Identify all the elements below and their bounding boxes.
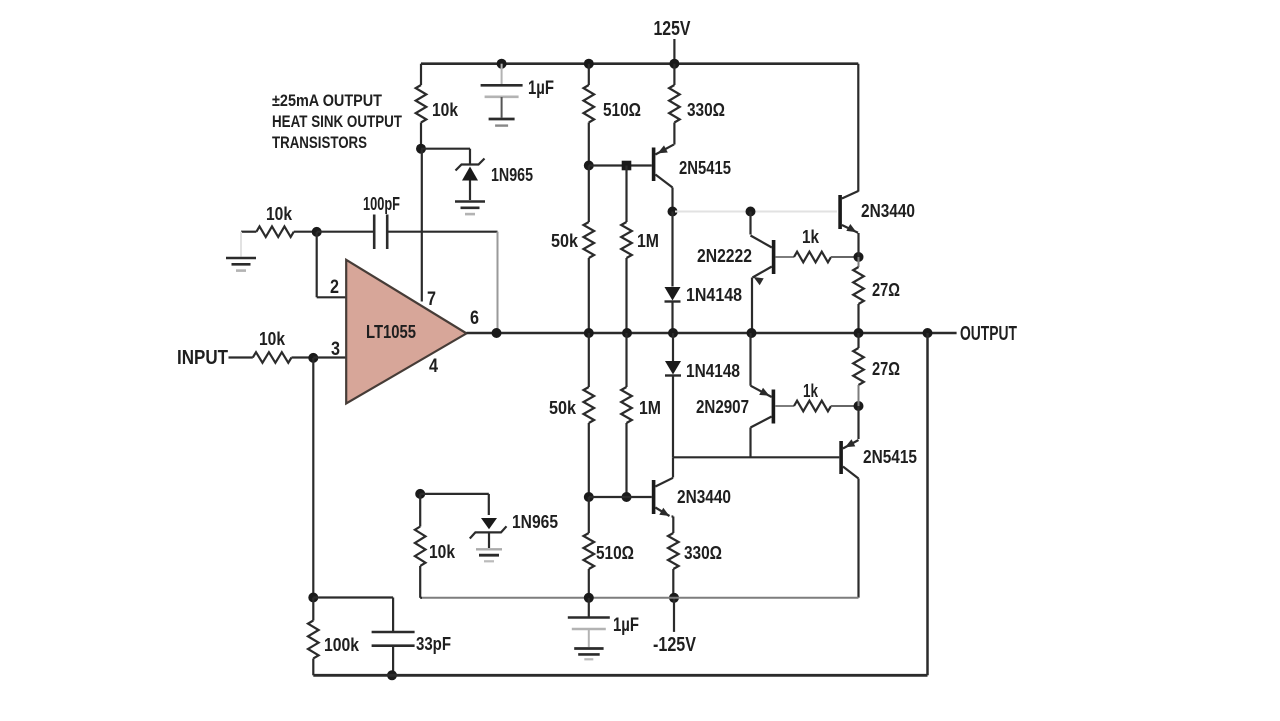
svg-text:1M: 1M xyxy=(639,398,661,418)
resistor R14 330ohm (lower) xyxy=(668,533,679,569)
label INPUT xyxy=(177,347,228,369)
node 10k-low / zener junction xyxy=(415,489,425,499)
node 50k/510 lower junction xyxy=(584,492,594,502)
wire pin2 horizontal xyxy=(317,296,346,298)
label R7 1k xyxy=(802,227,820,247)
wire D3 lower lead xyxy=(671,303,673,334)
label R16 100k xyxy=(324,635,360,655)
svg-text:100k: 100k xyxy=(324,635,360,655)
node feedback junction xyxy=(308,593,318,603)
wire input node vertical xyxy=(312,358,314,598)
wire Q4 emitter lead xyxy=(749,333,751,386)
label pin 3 xyxy=(331,339,340,360)
wire Q3 collector from top rail xyxy=(857,64,859,192)
node -125V junction xyxy=(669,593,679,603)
wire Q4 base wire xyxy=(775,405,794,407)
transistor Q4 2N2907 (PNP, faces left) xyxy=(751,386,776,428)
resistor R12 1M (lower) xyxy=(621,387,632,423)
node Q1 collector junction xyxy=(668,207,678,217)
wire zener1 horizontal xyxy=(421,149,470,164)
wire 50k-top upper lead xyxy=(588,166,590,223)
svg-text:2N2222: 2N2222 xyxy=(697,246,752,266)
wire 510-low upper lead xyxy=(588,497,590,533)
label -125V supply xyxy=(653,634,697,656)
label Q1 2N5415 xyxy=(679,158,731,178)
wire Q5 emitter lead xyxy=(672,517,674,534)
label R2 10k xyxy=(259,329,286,349)
transistor Q6 2N5415 (lower PNP) xyxy=(839,439,858,478)
wire Q5 base wire xyxy=(589,496,652,498)
svg-text:1N965: 1N965 xyxy=(512,512,558,532)
label pin 4 xyxy=(429,356,438,377)
node -125V bus / 510 junction xyxy=(584,593,594,603)
svg-text:1k: 1k xyxy=(802,227,820,247)
node 510/50k/base junction xyxy=(584,161,594,171)
label C1 1uF xyxy=(528,78,554,99)
svg-text:1N4148: 1N4148 xyxy=(686,361,740,381)
ground for D1 xyxy=(455,202,485,215)
wire Q1 collector lead xyxy=(671,188,673,212)
label R14 330ohm xyxy=(684,543,722,563)
svg-text:50k: 50k xyxy=(551,231,579,251)
wire feedback to 33pF xyxy=(313,598,393,632)
wire Q2 emitter lead xyxy=(751,278,753,334)
wire input lead xyxy=(229,356,253,358)
label D2 1N965 xyxy=(512,512,558,532)
resistor R16 100k xyxy=(308,621,319,659)
svg-text:125V: 125V xyxy=(654,18,692,40)
resistor R11 50k (lower) xyxy=(584,387,595,423)
svg-text:10k: 10k xyxy=(266,204,293,224)
label Q2 2N2222 xyxy=(697,246,752,266)
wire 125V stub xyxy=(673,39,675,64)
resistor R10 27ohm (lower) xyxy=(853,348,864,385)
label R6 1M xyxy=(637,231,659,251)
wire -125V bus xyxy=(422,597,859,599)
resistor R1 10k (top bias) xyxy=(416,85,427,122)
node top-rail / 330ohm junction xyxy=(669,59,679,69)
wire 50k-low upper lead xyxy=(588,333,590,387)
node base-wire / 1M junction xyxy=(622,161,632,171)
wire faint bias line to 2N3440 base xyxy=(675,211,837,213)
svg-text:510Ω: 510Ω xyxy=(603,100,641,120)
node 1M/base lower junction xyxy=(622,492,632,502)
svg-text:2N5415: 2N5415 xyxy=(863,447,917,467)
svg-text:1k: 1k xyxy=(803,381,819,401)
wire 10k-low upper lead xyxy=(419,494,421,527)
svg-text:7: 7 xyxy=(427,289,436,310)
label R8 1k xyxy=(803,381,819,401)
svg-text:3: 3 xyxy=(331,339,340,360)
label Q5 2N3440 xyxy=(677,487,731,507)
svg-text:2: 2 xyxy=(330,277,339,298)
svg-text:INPUT: INPUT xyxy=(177,347,228,369)
ground at inverting input xyxy=(226,258,256,271)
wire 1k to Q6 emitter node xyxy=(831,405,859,407)
wire 27-low upper lead xyxy=(857,333,859,348)
ground for D2 xyxy=(476,549,502,561)
svg-text:27Ω: 27Ω xyxy=(872,280,900,300)
label pin 2 xyxy=(330,277,339,298)
transistor Q1 2N5415 (top PNP) xyxy=(652,145,674,188)
wire D3 upper lead xyxy=(671,212,673,287)
node output/feedback junction xyxy=(923,328,933,338)
label R5 50k xyxy=(551,231,579,251)
resistor R3 510ohm (top) xyxy=(584,85,595,122)
label D1 1N965 xyxy=(491,165,533,185)
wire 50k-low lower lead xyxy=(588,423,590,497)
node pin2/100pF junction xyxy=(312,227,322,237)
wire 1M-low lower lead xyxy=(625,423,627,497)
wire 27-low lower lead xyxy=(858,385,860,406)
wire 100pF to output corner xyxy=(387,232,497,333)
wire 1uF-low ground stem xyxy=(588,629,590,647)
node op-amp pin3 input junction xyxy=(308,353,318,363)
node top-rail / 1uF junction xyxy=(497,59,507,69)
wire 27-top lower lead xyxy=(857,304,859,333)
label R13 10k xyxy=(429,542,456,562)
diode D1 1N965 zener (top) xyxy=(456,159,485,201)
wire 1uF-top ground stem xyxy=(501,97,503,118)
wire D4 upper lead xyxy=(672,333,674,361)
wire pin3 wire xyxy=(313,356,345,358)
svg-text:OUTPUT: OUTPUT xyxy=(960,323,1017,345)
wire zener2 horizontal xyxy=(420,494,489,515)
svg-text:6: 6 xyxy=(470,308,479,329)
label R9 27ohm xyxy=(872,280,900,300)
wire D4 lower lead xyxy=(672,377,674,458)
wire 33pF lower lead xyxy=(392,646,394,676)
label D3 1N4148 xyxy=(686,285,742,305)
svg-text:TRANSISTORS: TRANSISTORS xyxy=(272,133,367,152)
label Q4 2N2907 xyxy=(696,397,749,417)
label R12 1M xyxy=(639,398,661,418)
wire 1M-top lower lead xyxy=(625,258,627,333)
wire output rail xyxy=(467,332,957,335)
svg-text:100pF: 100pF xyxy=(363,194,400,214)
svg-text:50k: 50k xyxy=(549,398,577,418)
ground for C4 xyxy=(574,649,603,660)
resistor R0 10k (to ground) xyxy=(256,226,293,237)
svg-text:10k: 10k xyxy=(432,100,459,120)
wire 510-low lower lead xyxy=(588,569,590,598)
wire 330-top to Q1 emitter xyxy=(672,123,675,145)
label R11 50k xyxy=(549,398,577,418)
wire 1k to Q3 emitter node xyxy=(831,256,859,258)
svg-text:4: 4 xyxy=(429,356,438,377)
wire 1uF-low stem xyxy=(588,598,590,617)
wire drive line to Q6 base xyxy=(673,456,839,458)
resistor R15 510ohm (lower) xyxy=(584,533,595,569)
svg-text:330Ω: 330Ω xyxy=(684,543,722,563)
wire Q3 emitter lead xyxy=(857,233,859,257)
wire 1M-top upper lead xyxy=(625,166,627,223)
resistor R5 50k (upper) xyxy=(584,222,595,258)
resistor R2 10k (input) xyxy=(253,352,292,363)
svg-text:510Ω: 510Ω xyxy=(596,543,634,563)
svg-text:HEAT SINK OUTPUT: HEAT SINK OUTPUT xyxy=(272,112,402,131)
note ±25mA output heat sink xyxy=(272,91,402,152)
diode D3 1N4148 (upper) xyxy=(665,287,681,302)
label OUTPUT xyxy=(960,323,1017,345)
wire bottom feedback rail xyxy=(313,674,927,677)
label R10 27ohm xyxy=(872,359,900,379)
label R3 510ohm xyxy=(603,100,641,120)
wire 1M-low upper lead xyxy=(625,333,627,387)
wire 100k leads xyxy=(312,598,314,676)
transistor Q2 2N2222 (NPN, faces left) xyxy=(751,236,776,286)
wire Q5 collector lead xyxy=(672,457,674,477)
svg-text:1µF: 1µF xyxy=(613,615,639,636)
wire 330-low lower lead xyxy=(672,569,674,598)
wire Q4 collector lead xyxy=(749,428,751,458)
diode D2 1N965 zener (lower) xyxy=(470,518,507,548)
wire ground stem (faint) xyxy=(240,232,242,257)
wire pin2 vertical xyxy=(316,232,318,297)
node op-amp output xyxy=(492,328,502,338)
svg-text:±25mA OUTPUT: ±25mA OUTPUT xyxy=(272,91,383,110)
label R15 510ohm xyxy=(596,543,634,563)
transistor Q3 2N3440 (upper NPN) xyxy=(838,191,858,233)
resistor R13 10k (lower bias) xyxy=(415,527,426,566)
svg-text:1µF: 1µF xyxy=(528,78,554,99)
label C3 33pF xyxy=(416,634,451,654)
wire 10k-gnd to node xyxy=(294,231,317,233)
svg-text:33pF: 33pF xyxy=(416,634,451,654)
resistor R8 1k (lower) xyxy=(794,401,831,412)
wire Q6 collector lead xyxy=(857,479,859,598)
svg-text:2N3440: 2N3440 xyxy=(677,487,731,507)
wire node to 100pF xyxy=(317,231,375,233)
resistor R6 1M (upper) xyxy=(621,222,632,258)
svg-text:2N2907: 2N2907 xyxy=(696,397,749,417)
svg-text:10k: 10k xyxy=(429,542,456,562)
svg-text:1M: 1M xyxy=(637,231,659,251)
ground for C1 xyxy=(489,119,515,126)
wire +125V top rail xyxy=(421,62,858,65)
diode D4 1N4148 (lower) xyxy=(665,361,681,376)
wire 27-top upper lead xyxy=(858,257,860,267)
wire 10k-gnd left lead xyxy=(241,231,256,233)
wire -125V stub xyxy=(673,598,675,632)
svg-text:10k: 10k xyxy=(259,329,286,349)
wire output feedback vertical xyxy=(926,333,929,675)
capacitor C4 1uF (lower) xyxy=(568,618,610,630)
node output/diodes junction xyxy=(668,328,678,338)
node bottom rail / 33pF junction xyxy=(387,670,397,680)
svg-text:2N3440: 2N3440 xyxy=(861,201,915,221)
label R1 10k xyxy=(432,100,459,120)
capacitor C2 100pF xyxy=(374,215,387,250)
node output/50k junction xyxy=(584,328,594,338)
wire 10k-top upper lead xyxy=(420,64,422,85)
wire 1uF-top stem xyxy=(501,64,503,84)
label Q6 2N5415 xyxy=(863,447,917,467)
node output/27ohm junction xyxy=(854,328,864,338)
label R0 10k xyxy=(266,204,293,224)
label C2 100pF xyxy=(363,194,400,214)
label Q3 2N3440 xyxy=(861,201,915,221)
wire 50k-top lower lead xyxy=(588,258,590,333)
node Q6 emitter / 1k / 27ohm junction xyxy=(854,401,864,411)
wire Q2 base wire xyxy=(775,256,794,258)
capacitor C1 1uF (top) xyxy=(481,85,523,97)
wire 10k-top lower lead xyxy=(420,123,422,149)
node 10k/zener/pin7 junction xyxy=(416,144,426,154)
label D4 1N4148 xyxy=(686,361,740,381)
svg-text:LT1055: LT1055 xyxy=(366,322,416,342)
wire 510-top to node xyxy=(588,123,590,166)
label +125V supply xyxy=(654,18,692,40)
svg-text:-125V: -125V xyxy=(653,634,697,656)
node top-rail / 510ohm junction xyxy=(584,59,594,69)
wire 510-top upper lead xyxy=(588,64,590,85)
wire 330-top upper lead xyxy=(673,64,675,85)
wire Q6 emitter lead xyxy=(857,406,859,439)
node output/Q2-Q4 emitters junction xyxy=(747,328,757,338)
label pin 7 xyxy=(427,289,436,310)
wire Q1 base wire xyxy=(589,164,652,166)
wire Q2 collector lead xyxy=(749,212,751,235)
svg-text:27Ω: 27Ω xyxy=(872,359,900,379)
op-amp U1 LT1055 xyxy=(346,260,466,404)
label pin 6 xyxy=(470,308,479,329)
svg-text:1N965: 1N965 xyxy=(491,165,533,185)
svg-text:1N4148: 1N4148 xyxy=(686,285,742,305)
resistor R7 1k (upper) xyxy=(794,252,831,263)
node Q3 emitter / 1k / 27ohm junction xyxy=(854,252,864,262)
label R4 330ohm xyxy=(687,100,725,120)
label C4 1uF xyxy=(613,615,639,636)
svg-text:330Ω: 330Ω xyxy=(687,100,725,120)
wire pin7 vertical xyxy=(421,149,423,302)
resistor R9 27ohm (upper) xyxy=(853,267,864,304)
node output/1M junction xyxy=(622,328,632,338)
node faint-line / Q2 collector junction xyxy=(746,207,756,217)
capacitor C3 33pF xyxy=(372,632,415,646)
wire 10k-low lower lead xyxy=(420,566,422,598)
svg-text:2N5415: 2N5415 xyxy=(679,158,731,178)
wire input resistor to node xyxy=(292,356,314,358)
transistor Q5 2N3440 (lower NPN) xyxy=(652,478,673,516)
resistor R4 330ohm (top) xyxy=(669,85,680,122)
